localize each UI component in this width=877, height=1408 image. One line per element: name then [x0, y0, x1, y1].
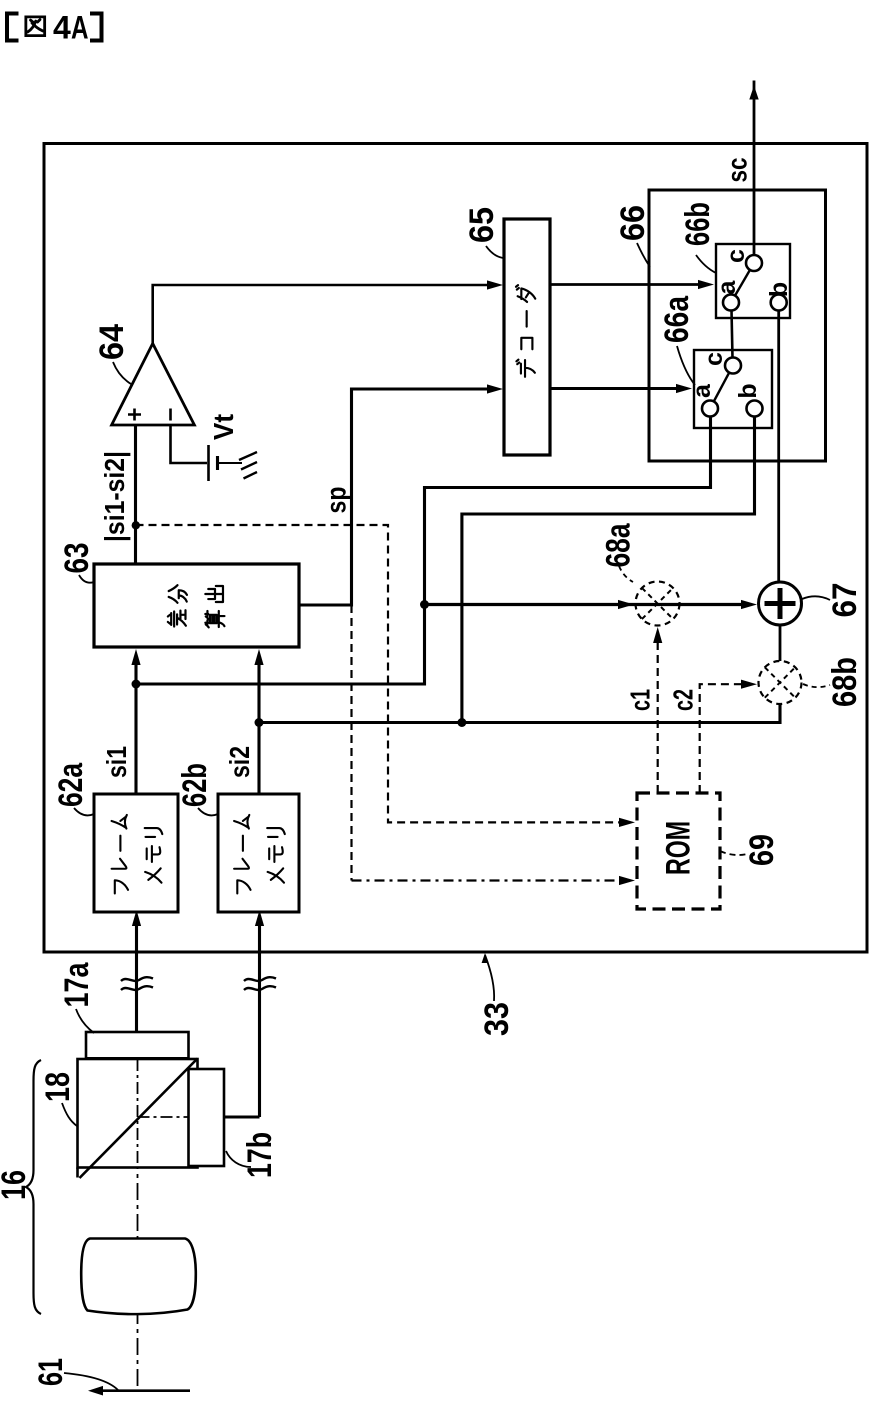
junction node si2 branch [457, 718, 466, 727]
svg-text:17b: 17b [241, 1132, 279, 1178]
lens element [81, 1239, 196, 1315]
wire adder 67 to multiplier 68b [779, 625, 782, 661]
switch 66b contact c [746, 255, 762, 271]
leader 17b [226, 1151, 251, 1167]
svg-text:sc: sc [722, 158, 753, 183]
wire |si1-si2| 63 to comparator [134, 425, 137, 564]
adder 67 circle [759, 582, 802, 625]
svg-text:65: 65 [463, 207, 501, 243]
wire si2 sensor 17b to frame memory 62b [224, 924, 260, 1117]
optical axis horizontal branch to 17b [138, 1116, 187, 1118]
svg-text:61: 61 [32, 1358, 70, 1386]
svg-text:62a: 62a [52, 762, 90, 807]
break mark on wire si2 [244, 977, 276, 981]
node |si1-si2| [132, 521, 140, 529]
wire si1 sensor 17a to frame memory 62a [135, 924, 138, 1032]
svg-text:ROM: ROM [660, 821, 698, 875]
battery Vt long plate [207, 445, 210, 481]
junction si1 node [132, 680, 141, 689]
wire minus input to battery [171, 425, 208, 463]
leader 18 [62, 1103, 77, 1126]
leader 69 dashed [720, 851, 747, 855]
switch 66b contact a [723, 295, 739, 311]
svg-text:si2: si2 [224, 746, 255, 778]
svg-text:c2: c2 [668, 689, 699, 711]
wire decoder to switch 66a [550, 387, 684, 390]
svg-text:a: a [713, 279, 741, 294]
svg-text:4: 4 [53, 10, 71, 46]
leader 68b dashed [803, 684, 830, 687]
svg-text:A: A [71, 10, 89, 46]
wire c2 ROM to 68b dashed [700, 684, 744, 793]
leader 62b [198, 808, 218, 815]
svg-text:a: a [688, 383, 716, 398]
svg-text:67: 67 [826, 583, 864, 618]
brace 16 [26, 1060, 41, 1314]
svg-text:68a: 68a [600, 523, 638, 568]
svg-text:66a: 66a [658, 295, 696, 343]
wire sp 63 to decoder [299, 389, 496, 605]
prism 18 [78, 1059, 198, 1168]
adder 67 plus [765, 588, 796, 619]
switch 66a lever a-c [714, 372, 730, 402]
leader 66a [677, 346, 695, 385]
wire si1 to multiplier 68a and adder 67 [425, 603, 746, 606]
multiplier 68a X [642, 588, 673, 619]
svg-text:17a: 17a [58, 962, 96, 1008]
leader 33 [485, 955, 494, 1001]
wire battery to ground [218, 462, 243, 464]
selector box 66 [649, 190, 826, 461]
wire sc output [753, 81, 756, 256]
frame memory 62b [218, 794, 299, 912]
switch 66a contact a [702, 401, 718, 417]
svg-text:63: 63 [58, 543, 96, 574]
svg-text:33: 33 [478, 1002, 516, 1036]
wire 66a-c to 66b-a [732, 310, 733, 358]
leader 17a [76, 1009, 94, 1033]
svg-text:16: 16 [0, 1170, 33, 1200]
sensor 17a [86, 1032, 189, 1058]
prism diagonal [80, 1059, 198, 1179]
dashed wire sp node to ROM vertical [350, 605, 352, 881]
leader 63 [79, 575, 94, 583]
svg-text:c: c [722, 249, 750, 263]
switch 66a box [694, 350, 772, 428]
svg-text:62b: 62b [176, 763, 214, 807]
prism left edge overshoot [76, 1168, 79, 1178]
object arrow 61 [100, 1389, 190, 1392]
multiplier 68b dashed circle [759, 661, 802, 704]
wire si2 62b to 63 [257, 662, 260, 794]
svg-text:18: 18 [39, 1072, 77, 1102]
break mark on wire si1 [121, 977, 153, 981]
wire si1 branch to 66a-a [136, 416, 711, 684]
processing unit box 33 [44, 144, 867, 953]
figure title bracket right [90, 14, 102, 41]
leader 67 [802, 596, 830, 600]
leader 66b [696, 255, 716, 273]
junction node si1-68a [420, 600, 429, 609]
leader 61 [64, 1373, 118, 1390]
junction si2 node [255, 718, 264, 727]
multiplier 68b X [765, 667, 795, 697]
svg-text:si1: si1 [101, 746, 132, 778]
svg-text:c: c [700, 352, 728, 366]
switch 66a contact c [725, 358, 741, 374]
decoder 65 [504, 219, 550, 455]
dashed wire sp node to ROM horizontal [352, 879, 623, 881]
ROM 69 dashed box [637, 793, 720, 909]
multiplier 68a dashed circle [636, 582, 680, 626]
comparator plus input mark [128, 409, 141, 421]
dashed wire |si1-si2| node to ROM [136, 525, 623, 822]
svg-text:b: b [765, 282, 793, 297]
battery Vt short plate [216, 456, 219, 470]
wire si2 branch to 68b [259, 705, 780, 723]
leader 65 [486, 246, 503, 258]
switch 66b box [716, 244, 790, 318]
wire comparator output to decoder 65 [153, 285, 496, 344]
switch 66b contact b [771, 295, 787, 311]
svg-text:Vt: Vt [208, 414, 239, 440]
svg-text:66: 66 [614, 205, 652, 241]
leader 64 [113, 362, 131, 384]
sensor 17b [189, 1069, 225, 1166]
svg-text:66b: 66b [679, 202, 717, 246]
comparator minus input mark [169, 409, 172, 421]
svg-text:68b: 68b [826, 657, 864, 707]
ground symbol [239, 452, 257, 479]
svg-text:64: 64 [93, 324, 131, 360]
wire decoder to switch 66b [550, 283, 706, 286]
wire si1 62a to 63 [134, 662, 137, 794]
svg-text:b: b [734, 383, 762, 398]
comparator 64 [112, 344, 195, 426]
switch 66a contact b [747, 401, 763, 417]
svg-text:c1: c1 [625, 689, 656, 711]
leader 68a dashed [619, 566, 633, 582]
optical axis dash-dot [137, 1059, 139, 1391]
svg-text:sp: sp [321, 487, 352, 514]
figure title kanji ZU (figure) [26, 17, 45, 36]
frame memory 62a [94, 794, 178, 912]
svg-text:|si1-si2|: |si1-si2| [99, 451, 130, 542]
leader 66 [637, 243, 650, 267]
switch 66b lever a-c [735, 270, 750, 297]
svg-text:69: 69 [743, 834, 781, 866]
wire 66b-b to adder 67 [777, 310, 780, 582]
wire c1 ROM to 68a dashed [657, 640, 659, 793]
leader 62a [74, 808, 94, 815]
axis inside prism [138, 1059, 191, 1167]
figure title bracket left [7, 14, 19, 41]
wire si2 branch to 66a-b [462, 416, 755, 723]
difference calculator 63 [94, 564, 299, 647]
